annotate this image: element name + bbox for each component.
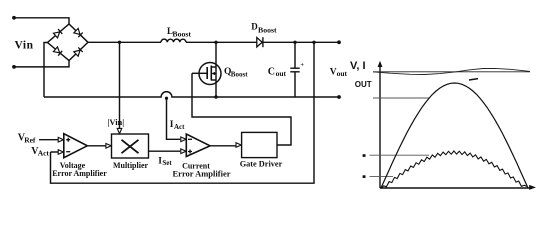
svg-text:Boost: Boost — [172, 29, 191, 38]
svg-text:Act: Act — [174, 123, 185, 131]
svg-text:Ref: Ref — [24, 136, 36, 145]
svg-text:Set: Set — [162, 159, 172, 167]
svg-text:out: out — [337, 69, 348, 78]
svg-text:OUT: OUT — [355, 80, 372, 89]
svg-text:|Vin|: |Vin| — [108, 117, 125, 127]
svg-text:Act: Act — [38, 148, 50, 157]
svg-text:Error Amplifier: Error Amplifier — [173, 168, 231, 178]
svg-text:V, I: V, I — [350, 60, 366, 72]
svg-text:Multiplier: Multiplier — [113, 161, 149, 170]
svg-text:Vin: Vin — [15, 39, 34, 51]
svg-text:+: + — [301, 63, 305, 69]
svg-text:out: out — [276, 69, 287, 78]
svg-text:Error Amplifier: Error Amplifier — [52, 169, 107, 178]
svg-text:Boost: Boost — [231, 70, 248, 78]
svg-text:Boost: Boost — [258, 26, 277, 35]
svg-text:Gate Driver: Gate Driver — [240, 159, 283, 168]
svg-text:C: C — [268, 66, 275, 77]
